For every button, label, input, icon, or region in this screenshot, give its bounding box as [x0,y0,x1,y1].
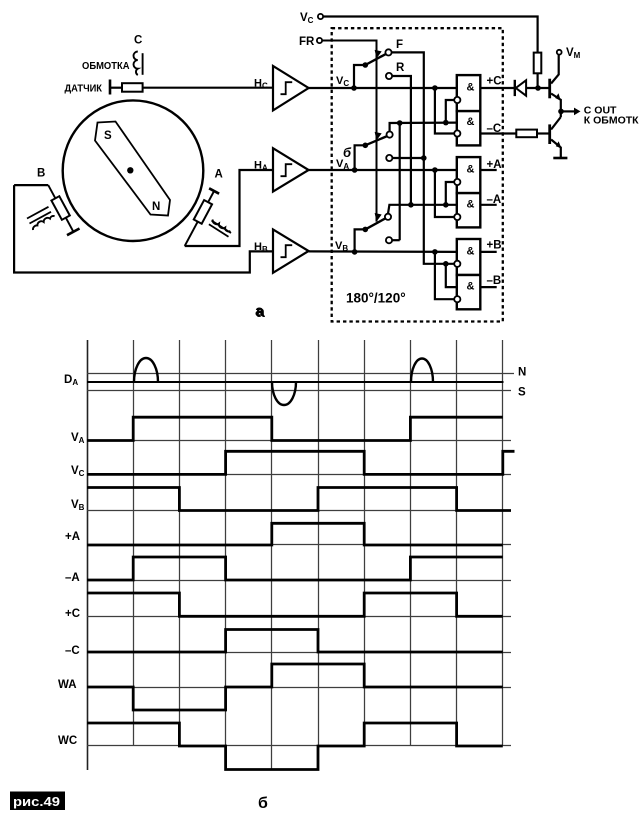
svg-text:–A: –A [65,572,80,584]
svg-text:&: & [467,164,475,176]
svg-text:180°/120°: 180°/120° [346,291,406,306]
svg-text:ДАТЧИК: ДАТЧИК [65,83,103,95]
svg-text:а: а [255,303,264,320]
svg-text:&: & [467,198,475,210]
svg-text:+A: +A [65,531,80,543]
svg-text:S: S [518,387,526,399]
svg-text:N: N [518,367,526,379]
svg-text:+C: +C [487,75,502,87]
svg-text:б: б [258,795,268,812]
svg-text:N: N [152,201,160,213]
svg-text:–B: –B [487,275,502,287]
svg-text:F: F [396,39,403,51]
svg-text:&: & [467,116,475,128]
svg-text:FR: FR [299,36,315,48]
svg-text:рис.49: рис.49 [13,794,60,809]
svg-text:–A: –A [487,194,502,206]
svg-text:+B: +B [487,240,502,252]
svg-text:&: & [467,82,475,94]
svg-text:R: R [396,62,405,74]
svg-text:S: S [104,130,112,142]
svg-text:WC: WC [58,735,77,747]
svg-text:+A: +A [487,159,502,171]
svg-text:WA: WA [58,679,77,691]
svg-text:A: A [215,169,223,181]
svg-text:–C: –C [65,645,80,657]
svg-text:C: C [134,35,142,47]
svg-text:–C: –C [487,123,502,135]
svg-text:ОБМОТКА: ОБМОТКА [82,60,130,72]
svg-text:&: & [467,281,475,293]
svg-text:+C: +C [65,608,80,620]
svg-text:б: б [343,145,352,160]
svg-text:B: B [37,168,45,180]
svg-text:&: & [467,245,475,257]
svg-text:К ОБМОТКЕ: К ОБМОТКЕ [584,114,639,126]
